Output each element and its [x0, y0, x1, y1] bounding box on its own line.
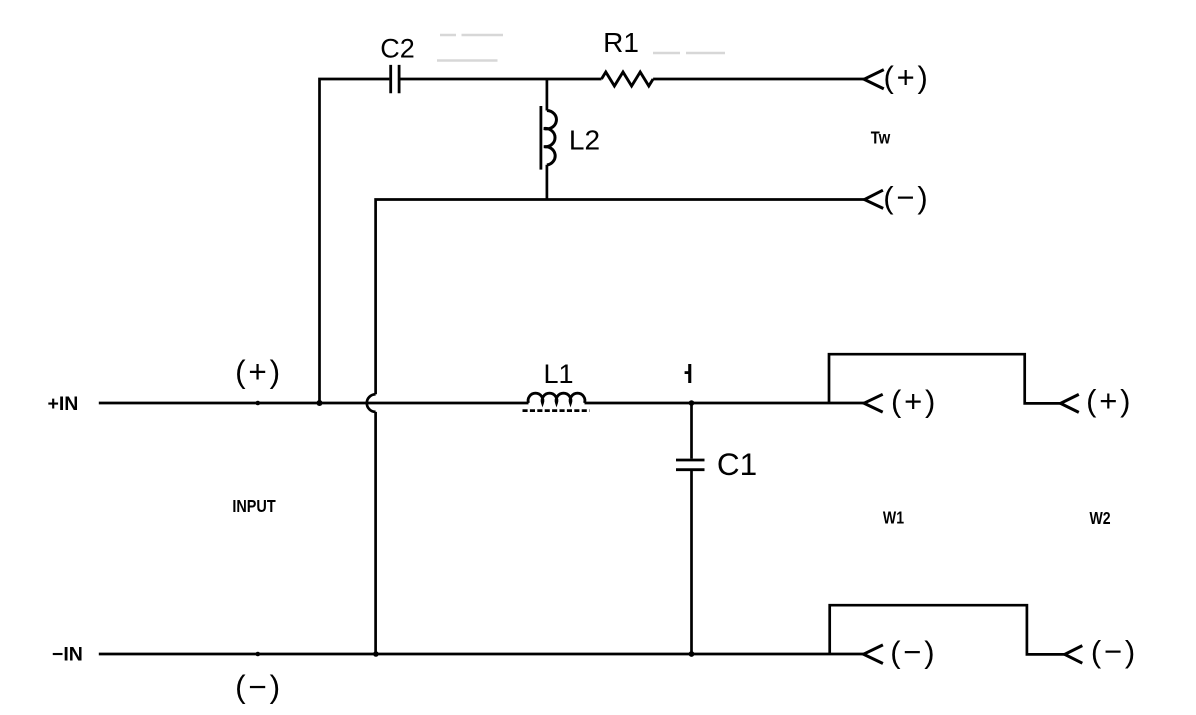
- junction C2 riser on plus bus: [317, 400, 323, 406]
- svg-text:W1: W1: [883, 509, 904, 528]
- inductor L2 core bar: [540, 106, 543, 170]
- inductor L2 lead bottom: [546, 165, 549, 200]
- svg-text:L2: L2: [569, 125, 600, 156]
- svg-text:C1: C1: [717, 446, 757, 482]
- arrow terminal woofer1 minus: [864, 645, 883, 664]
- arrow terminal woofer1 plus: [864, 394, 883, 412]
- wire woofer bridge minus: [830, 605, 1065, 654]
- svg-text:(−): (−): [883, 180, 930, 215]
- wire main plus bus: [99, 402, 864, 405]
- arrow terminal woofer2 plus: [1061, 394, 1079, 412]
- svg-text:(+): (+): [884, 60, 931, 95]
- svg-text:(+): (+): [891, 384, 938, 419]
- node dot input plus: [255, 401, 260, 406]
- inductor L2 coil: [544, 111, 557, 166]
- wire woofer bridge plus: [829, 354, 1061, 403]
- capacitor C1 lead bottom: [690, 471, 693, 654]
- capacitor C2: [391, 65, 399, 93]
- svg-text:(−): (−): [235, 668, 283, 704]
- svg-text:(+): (+): [235, 354, 283, 390]
- faint eraser artifacts: [437, 35, 725, 61]
- node dot input minus: [255, 652, 260, 657]
- svg-text:W2: W2: [1089, 510, 1110, 529]
- capacitor C1 lead top: [690, 403, 693, 459]
- inductor L2 lead top: [546, 79, 549, 111]
- inductor L1 coil: [528, 393, 585, 403]
- svg-text:Tw: Tw: [871, 128, 891, 148]
- svg-text:C2: C2: [380, 34, 415, 64]
- wire tweeter plus top: vertical riser from +IN node up to C2: [320, 79, 390, 403]
- svg-text:(−): (−): [890, 634, 937, 669]
- svg-text:−IN: −IN: [52, 644, 83, 666]
- label partial mark above C1 junction: [685, 364, 692, 383]
- wire hop over main plus wire: [367, 394, 376, 412]
- wire from C2 to R1: [400, 78, 601, 81]
- svg-text:INPUT: INPUT: [232, 498, 276, 516]
- wire tweeter minus: [376, 200, 865, 395]
- junction C1 on plus bus: [689, 400, 695, 406]
- svg-text:(−): (−): [1091, 634, 1138, 669]
- svg-text:R1: R1: [603, 27, 639, 58]
- capacitor C1: [676, 460, 705, 470]
- svg-text:+IN: +IN: [48, 393, 79, 415]
- arrow terminal woofer2 minus: [1065, 646, 1083, 664]
- junction hop riser on minus bus: [373, 651, 379, 657]
- junction C1 on minus bus: [689, 651, 695, 657]
- svg-text:(+): (+): [1086, 383, 1133, 418]
- wire main minus bus: [99, 653, 864, 656]
- resistor R1: [602, 72, 654, 86]
- inductor L1 dashed core: [523, 409, 590, 412]
- wire riser down to minus bus: [374, 412, 377, 654]
- arrow terminal tweeter plus: [864, 70, 884, 89]
- svg-text:L1: L1: [543, 359, 573, 389]
- wire from R1 to tweeter plus terminal: [653, 78, 864, 81]
- arrow terminal tweeter minus: [865, 190, 884, 208]
